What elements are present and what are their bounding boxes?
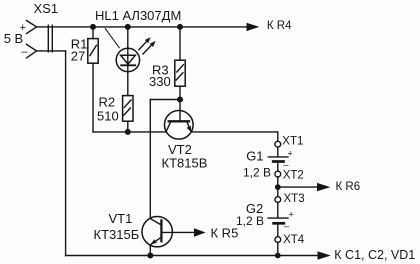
wire G1 to XT2 xyxy=(277,162,279,172)
svg-text:1,2 В: 1,2 В xyxy=(243,166,271,180)
terminal XT4 xyxy=(275,237,281,243)
svg-text:XT4: XT4 xyxy=(283,234,305,246)
connector XS1 plug + pin xyxy=(27,21,37,34)
node dot VT1 emitter xyxy=(147,253,153,259)
resistor R1 xyxy=(88,39,98,64)
LED emission arrow 1 xyxy=(139,41,147,50)
wire R2 bottom lead xyxy=(127,121,129,132)
connector XS1 plug - pin xyxy=(27,44,37,58)
wire G2 to XT4 xyxy=(277,223,279,236)
svg-text:510: 510 xyxy=(97,109,119,124)
svg-text:G1: G1 xyxy=(246,149,263,164)
svg-text:К R6: К R6 xyxy=(336,181,361,193)
transistor VT1 xyxy=(142,217,172,247)
resistor R2 xyxy=(123,96,133,122)
terminal XT2 xyxy=(275,171,281,177)
wire bottom rail xyxy=(66,255,318,257)
arrow К R4 xyxy=(247,26,260,28)
wire HL1 anode lead xyxy=(127,27,129,96)
wire base node to VT1 collector xyxy=(150,99,180,101)
svg-text:+: + xyxy=(20,22,26,34)
terminal XT1 xyxy=(275,141,281,147)
svg-text:VT1: VT1 xyxy=(109,211,133,226)
battery G1 xyxy=(268,156,288,158)
node dot R2 bottom xyxy=(125,129,131,135)
svg-text:XT3: XT3 xyxy=(284,193,305,205)
node dot R3 top xyxy=(177,24,183,30)
svg-text:27: 27 xyxy=(71,49,85,64)
svg-text:HL1 АЛ307ДМ: HL1 АЛ307ДМ xyxy=(95,8,181,23)
LED HL1 leader line xyxy=(105,29,119,48)
svg-text:К R4: К R4 xyxy=(267,20,292,32)
svg-text:К C1, C2, VD1: К C1, C2, VD1 xyxy=(334,248,415,262)
arrow К R6 xyxy=(317,183,330,191)
wire VT2 emitter to XT1 xyxy=(191,132,278,141)
arrow К C1, C2, VD1 xyxy=(318,251,331,259)
wire R1 top lead xyxy=(92,27,94,39)
svg-text:R2: R2 xyxy=(99,95,116,110)
svg-text:КТ315Б: КТ315Б xyxy=(94,227,140,242)
svg-text:–: – xyxy=(22,46,29,58)
wire left drop xyxy=(65,51,67,256)
wire R1 bottom lead xyxy=(92,63,94,132)
connector XS1 socket xyxy=(48,25,52,52)
LED emission arrow 2 xyxy=(143,45,152,54)
wire R3 top lead xyxy=(179,27,181,60)
svg-text:–: – xyxy=(284,221,289,231)
wire К R6 xyxy=(278,186,317,188)
wire XS1 minus lead xyxy=(37,50,66,52)
transistor VT2 xyxy=(165,111,194,140)
node dot VT2 base xyxy=(177,97,183,103)
svg-text:XT2: XT2 xyxy=(283,169,304,181)
wire collector rail left xyxy=(93,131,166,133)
wire XT3 to G2 xyxy=(277,202,279,217)
svg-text:КТ815В: КТ815В xyxy=(162,155,208,170)
svg-text:+: + xyxy=(288,149,293,159)
svg-text:XS1: XS1 xyxy=(34,1,59,16)
node dot К R6 junction xyxy=(275,184,281,190)
wire R3 bottom lead xyxy=(179,86,181,99)
svg-text:К R5: К R5 xyxy=(211,225,239,240)
svg-text:330: 330 xyxy=(149,74,171,89)
wire XT4 to bottom rail xyxy=(277,242,279,255)
wire VT1 collector drop xyxy=(149,100,151,219)
arrow К R5 xyxy=(194,228,206,236)
wire top rail xyxy=(37,26,248,28)
battery G2 xyxy=(268,217,288,219)
node dot HL1 top xyxy=(125,24,131,30)
node dot R1 top xyxy=(90,24,96,30)
svg-text:+: + xyxy=(289,210,294,220)
node dot XT4 bottom xyxy=(275,253,281,259)
wire XT2 to XT3 xyxy=(277,177,279,197)
resistor R3 xyxy=(175,60,185,86)
terminal XT3 xyxy=(275,197,281,203)
LED HL1 xyxy=(116,48,139,71)
svg-text:XT1: XT1 xyxy=(282,136,303,148)
svg-text:–: – xyxy=(284,159,289,169)
wire XT1 to G1 xyxy=(277,147,279,156)
svg-text:1,2 В: 1,2 В xyxy=(236,214,264,228)
